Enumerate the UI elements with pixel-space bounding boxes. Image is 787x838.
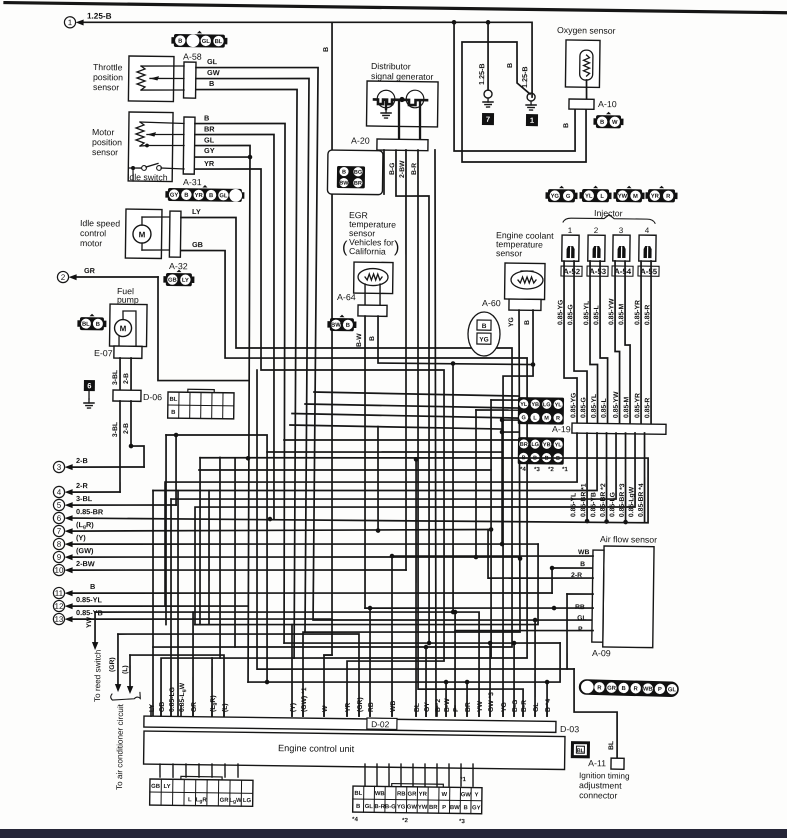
label box A-54: [612, 266, 633, 276]
throttle sensor resistor: [137, 66, 146, 90]
wire GL throttle to airflow GL: [189, 66, 600, 624]
svg-text:Oxygen sensor: Oxygen sensor: [557, 25, 616, 36]
junction B-G trunk: [427, 641, 432, 646]
wire 2-R row: [487, 530, 593, 580]
svg-text:YL: YL: [520, 402, 528, 408]
svg-text:*1: *1: [562, 466, 568, 473]
wire pin4: [73, 491, 120, 492]
svg-text:adjustment: adjustment: [579, 780, 622, 791]
wire A-19 feed 4: [502, 431, 518, 433]
svg-text:Distributor: Distributor: [371, 61, 411, 72]
oxygen sensor element: [580, 50, 593, 80]
svg-text:2-BW: 2-BW: [76, 559, 95, 568]
wire ECU to bottom-right connector: [400, 764, 403, 786]
wire inside motor GL: [147, 144, 184, 147]
injector glyph: [617, 246, 625, 258]
svg-text:YL: YL: [555, 442, 563, 448]
wire 0.85-LgW row to row 624: [193, 427, 636, 630]
svg-text:P: P: [453, 707, 460, 712]
wire 6 to ground: [88, 391, 90, 399]
svg-text:G: G: [566, 194, 571, 200]
wire ECU to bottom-left connector: [237, 764, 239, 777]
junction pin8 x502: [500, 542, 505, 547]
connector icon A-64: [327, 314, 356, 331]
svg-text:1.25-B: 1.25-B: [477, 63, 486, 85]
wire 2-B: [130, 358, 133, 390]
wire 0.85-BR *2: [605, 433, 607, 522]
bottom dark bar: [0, 829, 787, 838]
svg-text:1.25-B: 1.25-B: [87, 12, 112, 21]
connector bar A-64: [358, 305, 387, 316]
wire vertical 257 to row 669: [253, 370, 578, 673]
pin circle 6: [53, 512, 64, 523]
svg-text:0.85-YL: 0.85-YL: [76, 595, 103, 604]
distributor wire to bar 1: [397, 102, 400, 139]
svg-text:0.85-YB: 0.85-YB: [590, 492, 597, 517]
svg-text:11: 11: [55, 589, 64, 598]
svg-text:E-07: E-07: [94, 348, 113, 358]
A-20 housing box: [327, 150, 383, 195]
ground ring 7: [484, 90, 492, 98]
svg-text:B: B: [204, 113, 209, 122]
wire 3-BL lower: [119, 401, 121, 492]
arrow L down: [127, 686, 134, 694]
connector bar E-07: [114, 346, 142, 358]
svg-text:4: 4: [645, 226, 650, 235]
wire L row: [129, 654, 225, 716]
svg-text:(L): (L): [222, 703, 229, 712]
wire B throttle trunk: [189, 88, 302, 658]
wire LgW stub vertical: [175, 491, 181, 717]
svg-text:(L): (L): [122, 665, 129, 674]
wire to A-11: [573, 669, 618, 758]
svg-text:*2: *2: [402, 817, 408, 824]
svg-text:0.85-BR *1: 0.85-BR *1: [580, 483, 587, 517]
svg-text:A-31: A-31: [183, 177, 202, 187]
svg-text:BL: BL: [215, 39, 223, 45]
coolant inner line: [521, 270, 533, 272]
svg-text:BL: BL: [169, 397, 177, 403]
svg-text:YG: YG: [479, 336, 488, 343]
wire A-19 feed 3: [502, 419, 518, 421]
wire GL motor trunk down: [188, 145, 255, 682]
svg-text:0.85-BR *3: 0.85-BR *3: [619, 483, 626, 517]
distributor pickup left: [377, 90, 395, 108]
wire vertical 200 bus to row 624: [198, 458, 202, 625]
svg-text:1: 1: [68, 18, 73, 27]
svg-text:YG: YG: [508, 317, 515, 327]
svg-text:3: 3: [619, 226, 624, 235]
svg-text:10: 10: [54, 566, 64, 575]
wire 0.85-BR *1: [586, 433, 588, 521]
svg-text:(Y): (Y): [76, 533, 86, 542]
svg-text:BL: BL: [82, 322, 90, 328]
A-11 connector box: [611, 758, 624, 769]
svg-text:B: B: [178, 39, 182, 45]
svg-text:LG: LG: [243, 798, 252, 804]
connector icon E-07: [77, 314, 106, 331]
EGR zigzag: [365, 274, 382, 280]
svg-text:*3: *3: [459, 818, 465, 825]
pin circle 12: [53, 600, 64, 611]
svg-text:WB: WB: [375, 791, 385, 797]
connector grid D-06: [168, 389, 234, 419]
oxygen sensor box: [565, 40, 600, 87]
svg-text:GR: GR: [220, 798, 230, 804]
wire GY stub: [425, 647, 427, 716]
wire inside throttle box bottom: [141, 89, 184, 90]
svg-text:B-G: B-G: [512, 700, 519, 713]
svg-text:0.85-BR *2: 0.85-BR *2: [600, 483, 607, 517]
wire vertical 166: [164, 435, 169, 625]
label box A-55: [638, 266, 659, 276]
wire pin11: [73, 587, 552, 600]
wire B-R trunk to ECU: [411, 150, 531, 716]
connector bar A-60: [509, 299, 541, 310]
wire pin6 BR bus: [73, 451, 649, 526]
connector grid bottom left: [150, 776, 253, 806]
svg-text:D-02: D-02: [371, 719, 390, 729]
svg-text:0.85-R: 0.85-R: [644, 305, 651, 326]
svg-text:B: B: [171, 410, 175, 416]
svg-text:B: B: [96, 322, 100, 328]
wire BW stub: [445, 682, 448, 716]
wire row 470: [199, 466, 491, 474]
svg-text:B-G: B-G: [385, 804, 396, 810]
svg-text:0.85-G: 0.85-G: [580, 397, 587, 418]
svg-text:Throttle: Throttle: [93, 62, 123, 72]
wire pin3: [73, 466, 144, 468]
wire vertical 235: [233, 458, 238, 647]
idle switch underline stub: [132, 168, 134, 181]
idle motor circle: [133, 225, 151, 243]
wire row to A-19 upper: [314, 392, 518, 396]
wire coolant B down to ECU YG stub: [499, 310, 534, 717]
wire coolant YG to ECU: [302, 307, 524, 719]
injector wire 0.85-R: [649, 261, 653, 423]
pin circle 2: [57, 271, 68, 282]
EGR sensor box: [354, 262, 393, 294]
junction pin7 x378: [376, 528, 381, 533]
svg-text:3-BL: 3-BL: [76, 494, 93, 503]
svg-text:2-B: 2-B: [76, 456, 88, 465]
junction row 682: [265, 680, 270, 685]
svg-text:YG: YG: [551, 194, 560, 200]
connector icon below A-31: [165, 184, 244, 202]
svg-text:RB: RB: [368, 702, 375, 712]
wire pin5 riser: [175, 435, 177, 505]
svg-text:P: P: [578, 626, 583, 633]
wire B4 stub: [546, 682, 549, 716]
wire ECU to bottom-right connector: [424, 764, 427, 786]
svg-text:B: B: [600, 120, 604, 126]
injector wire 0.85-YW: [613, 261, 622, 423]
idle switch left node: [131, 166, 135, 170]
wire ECU to bottom-left connector: [198, 764, 200, 777]
svg-text:P: P: [442, 805, 446, 811]
pin circle 1: [64, 17, 75, 28]
svg-text:(LgR): (LgR): [210, 695, 218, 712]
A-60 pin YG box: [477, 333, 491, 344]
wire row to A-19 mid: [292, 414, 518, 419]
injector connector icon 1: [545, 186, 577, 203]
coolant sensor oval: [511, 271, 543, 289]
svg-text:LY: LY: [164, 784, 171, 790]
svg-text:(GW): (GW): [76, 546, 94, 555]
EGR sensor oval: [358, 268, 388, 285]
label box A-52: [561, 266, 582, 276]
svg-text:0.85-L: 0.85-L: [593, 305, 600, 325]
svg-text:B: B: [184, 193, 188, 199]
svg-text:YG: YG: [397, 804, 406, 810]
wire ECU to bottom-right connector: [436, 764, 439, 786]
brace air conditioner: [110, 692, 140, 700]
svg-text:A-11: A-11: [588, 758, 606, 768]
wire WB stub: [390, 556, 394, 716]
svg-text:A-58: A-58: [183, 51, 202, 61]
svg-text:sensor: sensor: [496, 248, 522, 258]
svg-text:YL: YL: [585, 194, 593, 200]
wire YW drop: [94, 612, 97, 645]
junction GL GY: [248, 155, 253, 160]
wire B pin A-20: [383, 150, 384, 194]
injector 1 box: [562, 235, 579, 261]
wire vertical 209: [207, 491, 210, 625]
svg-text:GY: GY: [170, 193, 179, 199]
svg-text:YG: YG: [501, 702, 508, 712]
wire vertical 378 to pin7 junction: [377, 427, 380, 529]
wire GR stub: [192, 612, 195, 716]
svg-text:B: B: [621, 686, 625, 692]
svg-text:0.85-LG: 0.85-LG: [169, 687, 176, 712]
svg-text:LY: LY: [192, 207, 201, 216]
air flow sensor connector bar: [592, 550, 604, 642]
pin circle 11: [53, 587, 64, 598]
svg-text:A-64: A-64: [337, 292, 356, 302]
svg-text:Motor: Motor: [92, 127, 114, 137]
wire Y feed: [500, 420, 503, 544]
svg-text:GL: GL: [668, 687, 677, 693]
wire YR motor to ECU YR: [188, 168, 450, 717]
wire B-G pin A-20 trunk: [390, 150, 436, 643]
wire row 643: [284, 639, 560, 646]
junction dot 1.25-B ground 7: [486, 20, 491, 25]
connector bar A-58: [184, 62, 196, 98]
oxygen sensor zigzag: [583, 55, 589, 76]
wire W from A-10 to ground 1: [460, 41, 587, 163]
svg-text:0.85-YL: 0.85-YL: [570, 493, 577, 517]
svg-text:position: position: [93, 72, 123, 82]
svg-text:To reed switch: To reed switch: [93, 649, 103, 702]
wire GY motor: [195, 156, 250, 157]
pin circle 3: [53, 461, 64, 472]
wire row 452: [267, 449, 502, 455]
svg-text:Engine control unit: Engine control unit: [278, 743, 355, 754]
junction pin7 chain: [489, 527, 494, 532]
wire pin11 to airflow B: [552, 568, 593, 594]
svg-text:A-19: A-19: [552, 424, 571, 434]
svg-text:4: 4: [57, 488, 62, 497]
wire row to A-19 upper 2: [305, 404, 518, 408]
svg-text:9: 9: [57, 553, 62, 562]
wire inside motor box B: [140, 122, 184, 123]
svg-text:BL: BL: [354, 791, 362, 797]
wire pin8 row 624: [195, 540, 539, 629]
junction BR on bus 6: [268, 517, 273, 522]
svg-text:2-B: 2-B: [123, 423, 130, 434]
svg-text:M: M: [120, 324, 127, 333]
coolant zigzag: [518, 277, 536, 283]
wire pin7: [73, 524, 491, 536]
wire row 440: [284, 437, 520, 443]
svg-text:WB: WB: [578, 549, 590, 556]
svg-text:M: M: [544, 416, 549, 422]
wire W jog: [324, 654, 332, 656]
wire pin2 GR: [77, 276, 158, 278]
arrow YW down: [92, 642, 99, 650]
connector icon A-11: [571, 741, 590, 758]
svg-text:6: 6: [57, 514, 62, 523]
fuel pump motor circle: [114, 319, 131, 336]
svg-text:12: 12: [55, 602, 65, 611]
svg-text:L: L: [600, 194, 604, 200]
pin circle 4: [53, 486, 64, 497]
wire pin8: [73, 538, 538, 550]
svg-text:GY: GY: [424, 702, 431, 712]
throttle wiper arrow: [150, 76, 159, 81]
svg-text:BL: BL: [608, 741, 615, 750]
EGR wire right: [379, 284, 382, 305]
wire BR motor trunk: [190, 133, 279, 519]
svg-text:B: B: [209, 79, 214, 88]
junction RB: [552, 606, 557, 611]
svg-text:connector: connector: [579, 790, 617, 800]
injector glyph: [643, 246, 651, 258]
svg-text:BL: BL: [414, 703, 421, 712]
label box D-02: [367, 718, 397, 729]
wire pin1 to ground 1: [83, 16, 533, 97]
motor sensor box: [128, 112, 173, 182]
node motor GL: [145, 144, 149, 148]
svg-text:YL: YL: [555, 402, 563, 408]
svg-text:YR: YR: [419, 792, 428, 798]
svg-text:L: L: [188, 797, 192, 803]
svg-text:To air conditioner circuit: To air conditioner circuit: [115, 703, 125, 790]
pin circle 10: [53, 564, 64, 575]
connector bar A-20: [377, 139, 428, 151]
distributor ground strap: [385, 102, 388, 109]
injector brace: [563, 214, 655, 223]
svg-text:0.85-M: 0.85-M: [623, 396, 630, 418]
svg-text:B *4: B *4: [545, 699, 552, 713]
svg-text:2-R: 2-R: [76, 481, 89, 490]
svg-text:2-B: 2-B: [123, 373, 130, 384]
svg-text:A-53: A-53: [589, 267, 607, 276]
wire LgR stub: [211, 658, 212, 716]
wire B motor trunk: [188, 122, 291, 643]
svg-text:California: California: [349, 246, 386, 256]
wire BR stub: [466, 682, 469, 716]
wire ECU to bottom-left connector: [224, 764, 226, 777]
wire RB stub: [369, 608, 372, 716]
svg-text:D-06: D-06: [143, 392, 162, 402]
junction GY stub on row 647: [424, 645, 429, 650]
svg-text:Injector: Injector: [594, 208, 623, 218]
svg-text:YR: YR: [195, 193, 204, 199]
wire B trunk x332: [323, 22, 340, 716]
connector bar A-32: [169, 211, 181, 257]
svg-text:B: B: [369, 336, 376, 341]
wire ECU to bottom-right connector: [472, 764, 475, 786]
injector wire 0.85-YR: [639, 261, 643, 423]
injector wire 0.85-YG: [562, 261, 579, 423]
injector connector icon 4: [645, 186, 677, 203]
wire ECU to bottom-right connector: [412, 764, 415, 786]
pin circle 13: [53, 613, 64, 624]
svg-text:GW *3: GW *3: [488, 692, 495, 712]
wire YW row: [94, 607, 481, 716]
svg-text:LG: LG: [543, 402, 551, 408]
wire ECU to bottom-right connector: [448, 764, 451, 786]
wire ECU to bottom-left connector: [185, 764, 187, 777]
wire pin12: [73, 604, 248, 609]
distributor pickup notched bar: [374, 99, 427, 105]
svg-text:A-60: A-60: [482, 298, 501, 308]
injector wire 0.85-L: [598, 261, 610, 423]
wire ECU to bottom-left connector: [172, 764, 174, 777]
wire A-19 feed 1: [491, 399, 518, 402]
svg-text:0.85-YL: 0.85-YL: [591, 394, 598, 418]
svg-text:1: 1: [568, 226, 573, 235]
svg-text:0.85-YL: 0.85-YL: [583, 301, 590, 325]
ground under 6: [88, 399, 90, 403]
connector bar A-10: [569, 99, 594, 109]
svg-text:GR: GR: [84, 266, 96, 275]
wire 3-BL: [119, 358, 122, 390]
svg-text:M: M: [633, 194, 638, 200]
svg-text:B: B: [342, 170, 346, 176]
svg-text:Air flow sensor: Air flow sensor: [600, 534, 657, 545]
svg-text:B-W: B-W: [444, 698, 451, 712]
wire 0.85-LG row: [171, 427, 617, 505]
svg-text:B: B: [507, 63, 514, 68]
svg-text:GL: GL: [365, 804, 374, 810]
svg-text:3: 3: [57, 463, 62, 472]
junction airflow B: [550, 566, 555, 571]
distributor ground: [385, 109, 387, 113]
wire P stub: [454, 612, 457, 716]
svg-text:6: 6: [87, 381, 91, 390]
wire row to A-19 lower: [290, 425, 502, 429]
svg-text:YR: YR: [345, 703, 352, 713]
A-60 pin B box: [477, 320, 491, 330]
svg-text:R: R: [556, 416, 560, 422]
injector 4 box: [639, 235, 656, 261]
svg-text:B: B: [346, 323, 350, 329]
svg-text:GL: GL: [577, 615, 587, 622]
connector grid A-19 upper: [518, 397, 564, 425]
svg-text:GL: GL: [202, 39, 211, 45]
svg-text:B *2: B *2: [435, 699, 442, 713]
junction GL trunk on bus: [246, 456, 251, 461]
svg-text:0.85-YR: 0.85-YR: [634, 300, 641, 325]
wire EGR B to coolant B: [377, 316, 533, 365]
wire LG stub vertical: [168, 499, 174, 716]
svg-text:pump: pump: [117, 295, 139, 305]
wire pin10: [73, 566, 406, 575]
wire 0.85-BR *4: [643, 433, 645, 523]
wire LY chain to row 647: [153, 216, 518, 651]
